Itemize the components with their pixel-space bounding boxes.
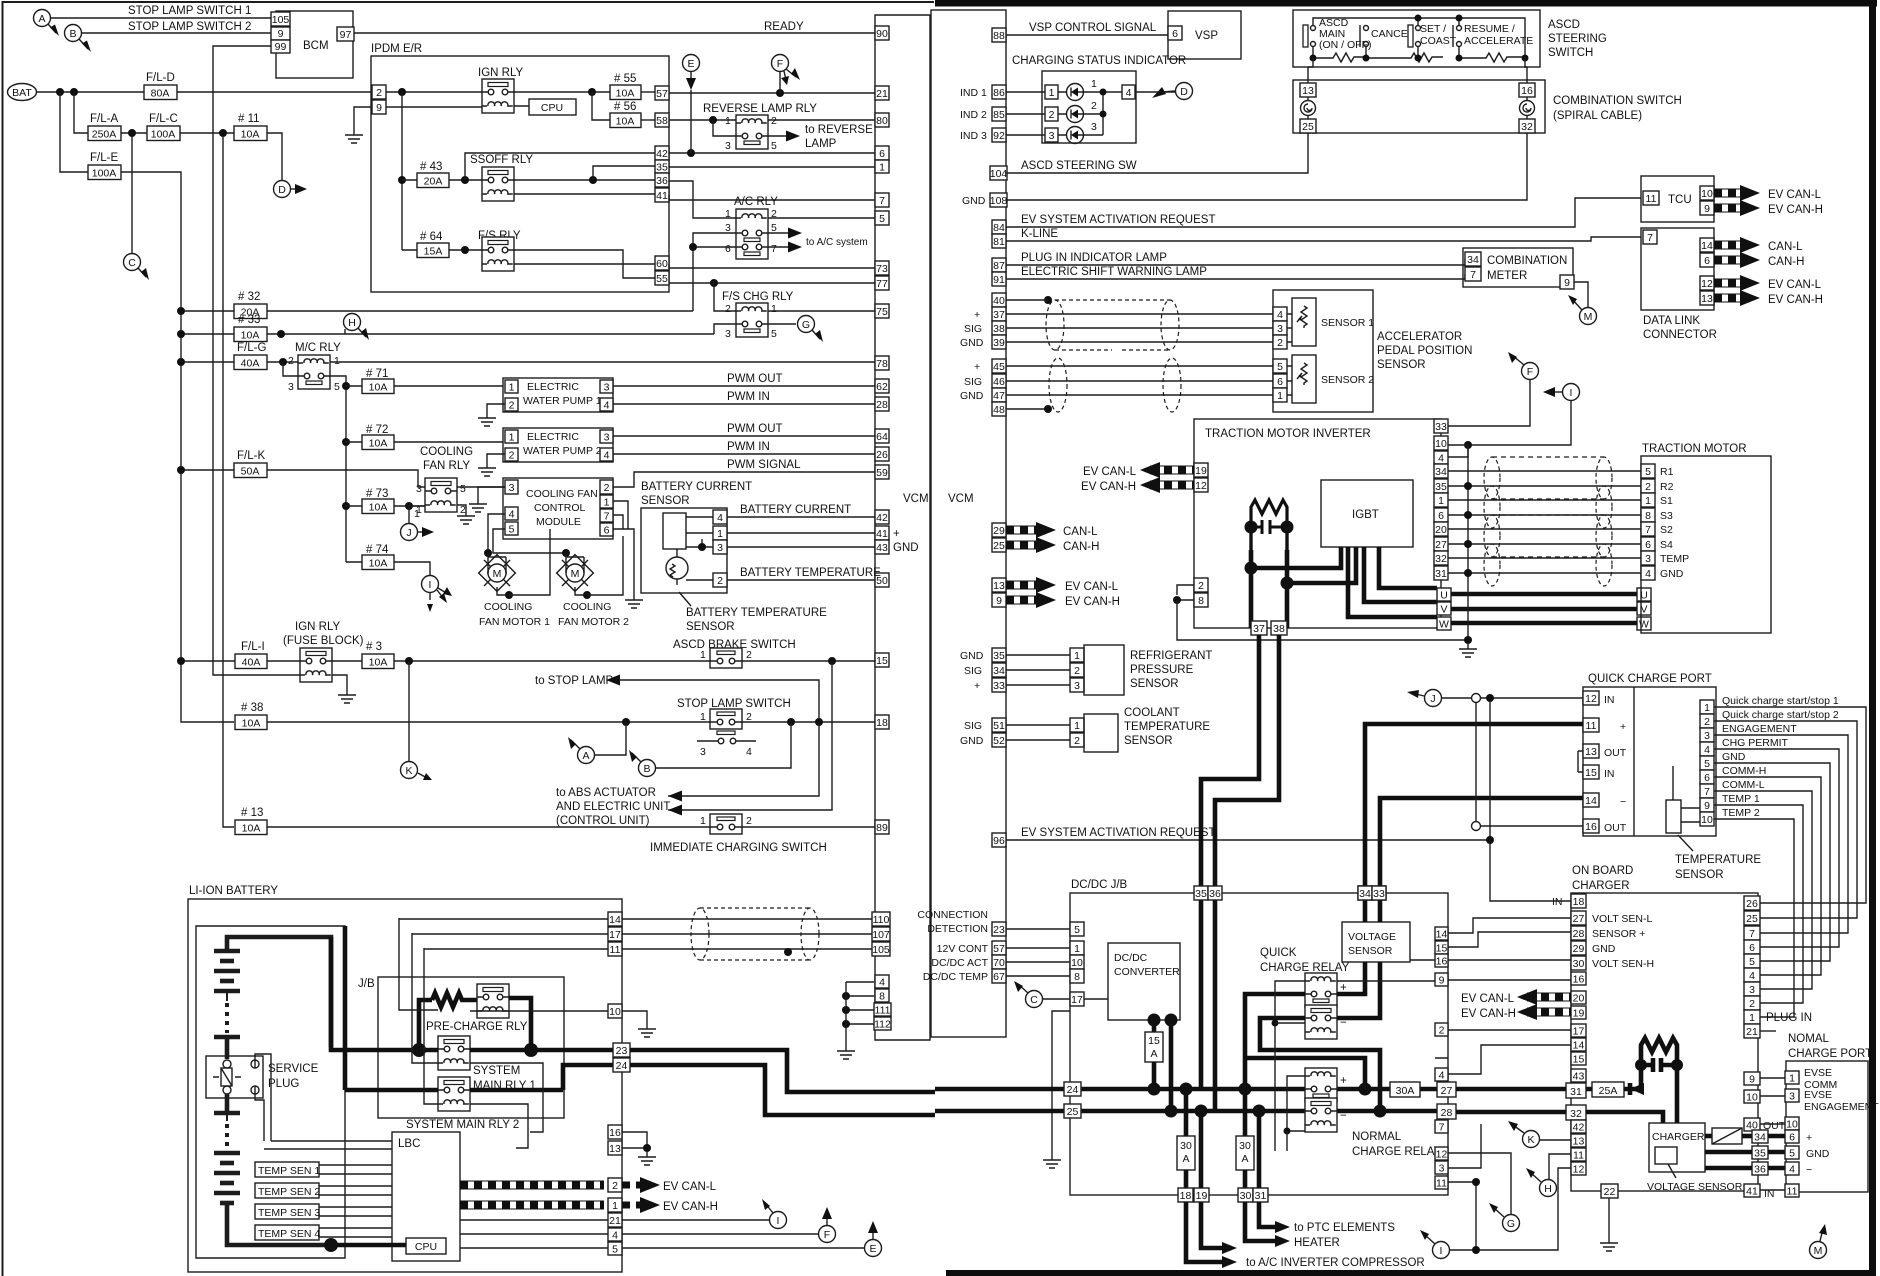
svg-text:SENSOR: SENSOR (1130, 678, 1179, 690)
30A fuse 2 (1236, 1089, 1254, 1188)
svg-text:SET /: SET / (1420, 23, 1446, 35)
svg-text:1: 1 (509, 382, 515, 394)
svg-text:107: 107 (872, 929, 890, 941)
svg-text:24: 24 (1067, 1084, 1079, 1096)
wire BAT bus (37, 91, 373, 93)
ELECTRIC WATER PUMP 2 (503, 428, 613, 462)
svg-text:1: 1 (1074, 720, 1080, 732)
svg-text:M/C RLY: M/C RLY (295, 342, 341, 354)
charger pin labels (1592, 913, 1654, 970)
battery inner box (196, 926, 345, 1258)
svg-text:34: 34 (993, 665, 1005, 677)
F/S RLY (478, 230, 521, 271)
svg-text:IND 2: IND 2 (960, 109, 987, 121)
STOP LAMP SWITCH (677, 698, 791, 758)
DC/DC CONVERTER (1108, 943, 1180, 1020)
svg-text:13: 13 (1701, 293, 1713, 305)
svg-text:CONNECTION: CONNECTION (917, 909, 988, 921)
svg-text:PRE-CHARGE RLY: PRE-CHARGE RLY (426, 1021, 528, 1033)
svg-text:+: + (974, 309, 980, 321)
svg-text:EV CAN-H: EV CAN-H (1461, 1008, 1516, 1020)
svg-text:1: 1 (1749, 1012, 1755, 1024)
svg-text:2: 2 (717, 575, 723, 587)
svg-text:25: 25 (1746, 913, 1758, 925)
node 43f (398, 176, 406, 184)
pin 17 (608, 927, 622, 941)
svg-text:110: 110 (873, 914, 890, 926)
svg-text:4: 4 (1645, 568, 1651, 580)
wire fschg contact to G (714, 324, 796, 334)
svg-text:32: 32 (1435, 553, 1447, 565)
svg-text:PEDAL POSITION: PEDAL POSITION (1377, 345, 1472, 357)
connector circle H right (1526, 1154, 1571, 1197)
svg-text:# 71: # 71 (366, 368, 388, 380)
svg-text:+: + (893, 528, 900, 540)
svg-text:3: 3 (604, 382, 610, 394)
node sls1 (622, 718, 630, 726)
connector circle C (124, 254, 150, 281)
svg-text:WATER PUMP 1: WATER PUMP 1 (523, 395, 602, 407)
svg-text:2: 2 (746, 649, 752, 661)
connector circle B (65, 25, 92, 53)
wire BAT to F/L-E (60, 92, 88, 172)
to A/C inverter compressor (1186, 1202, 1222, 1262)
svg-text:100A: 100A (151, 129, 176, 141)
svg-text:57: 57 (656, 88, 668, 100)
wire 46 to sensor 6 (1006, 380, 1273, 382)
wire motor2 top (565, 553, 567, 557)
svg-text:19: 19 (1195, 465, 1207, 477)
ground IPDM9 (345, 130, 363, 143)
arrow to reverse lamp (786, 131, 800, 142)
wire pin42 left (465, 153, 655, 180)
pin 11 (608, 942, 622, 956)
svg-text:DATA LINK: DATA LINK (1643, 315, 1700, 327)
svg-text:D: D (278, 184, 286, 196)
sensor pins (713, 510, 727, 587)
node inverter10 (1464, 441, 1472, 449)
wire IGN coil to CPU (386, 106, 529, 107)
svg-text:# 55: # 55 (614, 73, 636, 85)
COMBINATION METER (1463, 248, 1574, 289)
svg-text:35: 35 (993, 650, 1005, 662)
svg-text:2: 2 (1198, 580, 1204, 592)
pin 14 (608, 912, 622, 926)
svg-text:13: 13 (1585, 746, 1597, 758)
wire JB gnd (1052, 1011, 1070, 1155)
svg-text:17: 17 (1573, 1026, 1585, 1038)
svg-text:48: 48 (993, 404, 1005, 416)
svg-text:27: 27 (1441, 1085, 1453, 1097)
svg-text:S2: S2 (1660, 524, 1673, 536)
wire battery temperature (727, 579, 875, 581)
svg-text:51: 51 (993, 720, 1005, 732)
wire 14 to VCM110 with shield (622, 918, 872, 920)
svg-text:5: 5 (1749, 956, 1755, 968)
converter outputs (1148, 1014, 1161, 1027)
svg-text:64: 64 (876, 431, 888, 443)
staircase wires port to charger (1714, 707, 1866, 1017)
node fschg (710, 279, 718, 287)
svg-text:CONNECTOR: CONNECTOR (1643, 329, 1717, 341)
EV CAN-L charger (1461, 989, 1571, 1005)
wire pin2 to IGN RLY (386, 91, 482, 93)
svg-text:25: 25 (993, 540, 1005, 552)
LBC box (392, 1132, 460, 1261)
wire 31 thick (1257, 1111, 1262, 1188)
svg-text:4: 4 (1439, 1070, 1445, 1082)
svg-text:34: 34 (1754, 1132, 1766, 1144)
svg-text:IND 3: IND 3 (960, 130, 987, 142)
svg-text:E: E (687, 58, 694, 70)
svg-text:BATTERY CURRENT: BATTERY CURRENT (740, 504, 851, 516)
svg-text:to A/C system: to A/C system (806, 237, 868, 248)
REVERSE LAMP RLY (703, 103, 817, 152)
thick charger to EVSE (1705, 1152, 1752, 1168)
node 40 (1044, 296, 1052, 304)
IGN RLY fuse block (283, 621, 364, 703)
wire BCM97 to VCM90 READY (354, 32, 875, 34)
wire 11 to VCM105 (622, 948, 872, 950)
pin 21 battery (608, 1213, 622, 1227)
svg-text:55: 55 (656, 273, 668, 285)
svg-text:10A: 10A (616, 116, 635, 128)
svg-text:CAN-H: CAN-H (1768, 256, 1804, 268)
svg-text:TEMPERATURE: TEMPERATURE (1124, 721, 1210, 733)
wire 48 shield (1006, 408, 1048, 410)
connector circle J (401, 506, 435, 541)
svg-text:10A: 10A (241, 330, 260, 342)
svg-text:2: 2 (509, 450, 515, 462)
svg-text:SENSOR 1: SENSOR 1 (1321, 317, 1374, 329)
inverter right pins (1434, 419, 1448, 580)
svg-text:57: 57 (993, 943, 1005, 955)
thick bus 25 right page (935, 1109, 1437, 1114)
svg-text:9: 9 (376, 102, 382, 114)
fuse F/L-D 80A (144, 72, 177, 100)
svg-text:7: 7 (771, 243, 777, 255)
wire fschg coil (714, 283, 875, 311)
LI-ION BATTERY outer box (188, 885, 622, 1272)
svg-text:EV CAN-L: EV CAN-L (1768, 279, 1822, 291)
wire to fuse 56 (592, 92, 610, 120)
svg-text:85: 85 (993, 109, 1005, 121)
svg-text:3: 3 (288, 381, 294, 393)
svg-text:4: 4 (1704, 744, 1710, 756)
svg-text:6: 6 (1789, 1132, 1795, 1144)
wire pump1 gnd (487, 404, 505, 413)
svg-text:6: 6 (1438, 510, 1444, 522)
cooling fan motor 2 (557, 536, 623, 599)
svg-text:GND: GND (1592, 943, 1616, 955)
svg-text:34: 34 (1467, 254, 1479, 266)
A/C RLY (725, 196, 778, 259)
connector circle E mid (865, 1221, 882, 1257)
wire F to 21wire (779, 72, 781, 93)
motor wire shields (1484, 457, 1612, 586)
svg-text:4: 4 (1277, 309, 1283, 321)
svg-text:40: 40 (993, 295, 1005, 307)
svg-text:7: 7 (1470, 269, 1476, 281)
svg-text:5: 5 (1789, 1148, 1795, 1160)
svg-text:H: H (1544, 1183, 1552, 1195)
svg-text:EVSE: EVSE (1804, 1067, 1832, 1079)
svg-text:2: 2 (1091, 100, 1097, 112)
connector circle I bottom right (1420, 1168, 1571, 1259)
svg-text:SENSOR: SENSOR (686, 621, 735, 633)
svg-text:10: 10 (1701, 814, 1713, 826)
svg-text:PWM IN: PWM IN (727, 441, 770, 453)
TEMP SEN 3 (255, 1204, 392, 1219)
svg-text:12: 12 (1701, 278, 1713, 290)
svg-text:EV CAN-H: EV CAN-H (1768, 204, 1823, 216)
wire to stop lamp (620, 680, 819, 722)
svg-text:5: 5 (1074, 924, 1080, 936)
wire 19 thick (1199, 1111, 1204, 1188)
pin 24 right (1064, 1082, 1081, 1096)
svg-text:12: 12 (1436, 1149, 1448, 1161)
svg-text:OUT: OUT (1604, 747, 1627, 759)
wire 17 to converter (1084, 998, 1108, 1000)
svg-text:7: 7 (1647, 232, 1653, 244)
inverter pins 2 8 (1194, 578, 1208, 592)
EV CAN-L into inverter (1083, 462, 1194, 478)
svg-text:COOLING: COOLING (563, 601, 611, 613)
svg-text:to PTC ELEMENTS: to PTC ELEMENTS (1294, 1222, 1395, 1234)
fuse F/L-I 40A (177, 641, 300, 669)
svg-text:75: 75 (876, 306, 888, 318)
node 15 (828, 657, 836, 665)
wire fan rly coil in (409, 505, 425, 507)
svg-text:CHARGER: CHARGER (1652, 1131, 1705, 1143)
fuse 15A (1145, 1020, 1163, 1089)
TEMP SEN 4 (255, 1225, 392, 1240)
svg-text:13: 13 (1573, 1136, 1585, 1148)
connector circle I right (1468, 384, 1580, 446)
fuse # 72 10A (346, 424, 503, 450)
svg-text:LI-ION BATTERY: LI-ION BATTERY (189, 885, 278, 897)
svg-text:38: 38 (993, 323, 1005, 335)
svg-text:GND: GND (960, 337, 984, 349)
sensor inner parts (663, 513, 688, 585)
plug in staircase (1760, 1030, 1776, 1032)
svg-text:16: 16 (1436, 956, 1448, 968)
svg-text:SIG: SIG (964, 665, 982, 677)
svg-text:42: 42 (656, 148, 668, 160)
svg-text:S3: S3 (1660, 510, 1673, 522)
svg-text:5: 5 (771, 140, 777, 152)
svg-text:5: 5 (509, 524, 515, 536)
wire 91 ELECTRIC SHIFT WARNING LAMP (1006, 274, 1465, 279)
svg-text:CHARGER: CHARGER (1572, 880, 1630, 892)
svg-text:3: 3 (604, 432, 610, 444)
svg-text:14: 14 (1573, 1040, 1585, 1052)
svg-text:3: 3 (725, 140, 731, 152)
svg-text:15A: 15A (424, 246, 443, 258)
svg-text:GND: GND (1806, 1148, 1830, 1160)
svg-text:SIG: SIG (964, 376, 982, 388)
CHARGING STATUS INDICATOR (1012, 55, 1186, 144)
wires IND (1006, 92, 1045, 135)
svg-text:F/L-C: F/L-C (149, 113, 178, 125)
J/B top pins 34 33 (1358, 886, 1372, 900)
svg-text:GND: GND (1660, 568, 1684, 580)
svg-text:88: 88 (993, 30, 1005, 42)
svg-text:CAN-H: CAN-H (1063, 541, 1099, 553)
svg-text:46: 46 (993, 376, 1005, 388)
svg-text:3: 3 (1277, 323, 1283, 335)
svg-text:TRACTION MOTOR: TRACTION MOTOR (1642, 443, 1747, 455)
svg-text:A: A (1182, 1153, 1189, 1165)
svg-text:3: 3 (1439, 1163, 1445, 1175)
svg-text:S1: S1 (1660, 495, 1673, 507)
svg-text:SYSTEM: SYSTEM (473, 1065, 520, 1077)
CAN-L from VCM29 (1006, 522, 1098, 538)
LED 3 (1067, 127, 1084, 144)
connector circle D (274, 181, 308, 198)
VCM right pin labels (917, 87, 988, 983)
svg-text:DETECTION: DETECTION (927, 923, 988, 935)
svg-text:GND: GND (960, 735, 984, 747)
wire F/L-C to fuse 11 (180, 132, 234, 134)
svg-text:ELECTRIC: ELECTRIC (527, 381, 579, 393)
fuse # 73 10A (346, 488, 425, 514)
svg-text:6: 6 (725, 243, 731, 255)
wire brake sw to VCM15 (742, 660, 875, 661)
ASCD STEERING SWITCH box (1293, 10, 1607, 67)
DATA LINK CONNECTOR (1641, 228, 1717, 341)
node AC6 (689, 243, 697, 251)
wire fuse55 to pin57 (641, 91, 655, 93)
pin 55 (655, 271, 669, 285)
wire battery current (727, 516, 875, 518)
wire 38 to sensor 3 (1006, 327, 1273, 329)
wire vs box to 16 (1410, 959, 1435, 961)
wire AC7 arrow (768, 246, 790, 248)
LED 2 (1067, 106, 1084, 123)
svg-text:GND: GND (893, 542, 919, 554)
svg-text:10: 10 (1701, 188, 1713, 200)
svg-text:21: 21 (609, 1215, 621, 1227)
wire C branch (131, 137, 133, 253)
svg-text:80: 80 (876, 115, 888, 127)
svg-text:11: 11 (1787, 1186, 1798, 1198)
svg-text:2: 2 (1704, 716, 1710, 728)
svg-text:60: 60 (656, 258, 668, 270)
svg-text:A: A (38, 13, 45, 25)
svg-text:45: 45 (993, 361, 1005, 373)
svg-text:4: 4 (604, 400, 610, 412)
svg-text:7: 7 (879, 195, 885, 207)
node FLAC (128, 129, 136, 137)
svg-text:IGN RLY: IGN RLY (478, 67, 523, 79)
fuse # 74 10A (346, 544, 430, 575)
ON BOARD CHARGER box (1571, 865, 1758, 1191)
IGBT pins to UVW (1348, 547, 1437, 617)
svg-text:70: 70 (993, 957, 1005, 969)
svg-text:2: 2 (509, 400, 515, 412)
wire module left gnd (478, 487, 505, 499)
svg-text:CPU: CPU (415, 1241, 437, 1253)
svg-text:9: 9 (1564, 277, 1570, 289)
svg-text:IMMEDIATE CHARGING SWITCH: IMMEDIATE CHARGING SWITCH (650, 842, 827, 854)
svg-text:IGN RLY: IGN RLY (295, 621, 340, 633)
svg-text:SSOFF RLY: SSOFF RLY (470, 154, 533, 166)
node F21 (776, 89, 784, 97)
pin 58 (655, 113, 669, 127)
svg-text:59: 59 (876, 467, 888, 479)
svg-text:# 74: # 74 (366, 544, 389, 556)
svg-text:NORMAL: NORMAL (1352, 1131, 1402, 1143)
svg-text:10: 10 (609, 1006, 621, 1018)
wire 37 to sensor 4 (1006, 313, 1273, 315)
right page bottom black bar (946, 1270, 1876, 1276)
svg-text:23: 23 (993, 924, 1005, 936)
pin 18 JB bottom (1178, 1188, 1193, 1202)
svg-text:COOLANT: COOLANT (1124, 707, 1180, 719)
node K (405, 657, 413, 665)
svg-text:GND: GND (1722, 751, 1746, 763)
wire rev contact to lamp (713, 120, 788, 136)
svg-text:11: 11 (1573, 1150, 1584, 1162)
motor UVW pins (1637, 588, 1651, 601)
wire module1/7 to battery current sensor (613, 501, 628, 529)
svg-text:13: 13 (993, 580, 1005, 592)
svg-text:I: I (777, 1215, 780, 1227)
wire pin41 to VCM7 (669, 195, 875, 200)
APP sensor shield 1 (1046, 300, 1179, 350)
fuse # 56 10A (610, 101, 641, 128)
node BAT-2 (70, 88, 78, 96)
svg-text:COAST: COAST (1420, 35, 1457, 47)
svg-text:3: 3 (1749, 984, 1755, 996)
pin 31 JB bottom (1253, 1188, 1268, 1202)
connector circle F mid (819, 1207, 836, 1243)
svg-text:16: 16 (1573, 974, 1585, 986)
svg-text:2: 2 (746, 815, 752, 827)
F/S CHG RLY (722, 291, 794, 340)
wire inverter 2/8 (1177, 585, 1194, 600)
svg-text:9: 9 (996, 595, 1002, 607)
svg-text:3: 3 (1645, 553, 1651, 565)
svg-text:4: 4 (604, 450, 610, 462)
wire 81 K-LINE to DLC7 (1006, 237, 1641, 241)
svg-text:ASCD STEERING SW: ASCD STEERING SW (1021, 160, 1137, 172)
svg-text:TEMP 1: TEMP 1 (1722, 793, 1760, 805)
svg-text:+: + (1620, 721, 1626, 733)
svg-text:LBC: LBC (398, 1138, 420, 1150)
svg-text:F/L-I: F/L-I (241, 641, 265, 653)
svg-text:34: 34 (1359, 888, 1371, 900)
quick charge relay - (1305, 1005, 1337, 1039)
bottom bus with resistors (1313, 47, 1525, 62)
svg-text:97: 97 (340, 29, 352, 41)
svg-text:A: A (1241, 1153, 1248, 1165)
wire stop lamp switch 1 (51, 17, 272, 19)
svg-text:IND 1: IND 1 (960, 87, 987, 99)
svg-text:(SPIRAL CABLE): (SPIRAL CABLE) (1553, 110, 1642, 122)
charger right pins 9 10 (1744, 1072, 1760, 1085)
wire pwm signal (612, 472, 875, 487)
pin 25 right (1064, 1104, 1081, 1118)
node 1613 (643, 1144, 651, 1152)
svg-text:J: J (1430, 693, 1435, 705)
svg-text:40A: 40A (241, 358, 260, 370)
svg-text:EV SYSTEM ACTIVATION REQUEST: EV SYSTEM ACTIVATION REQUEST (1021, 214, 1215, 226)
pin 42 (655, 146, 669, 160)
svg-text:# 64: # 64 (420, 231, 443, 243)
svg-text:FAN MOTOR 1: FAN MOTOR 1 (479, 616, 550, 628)
